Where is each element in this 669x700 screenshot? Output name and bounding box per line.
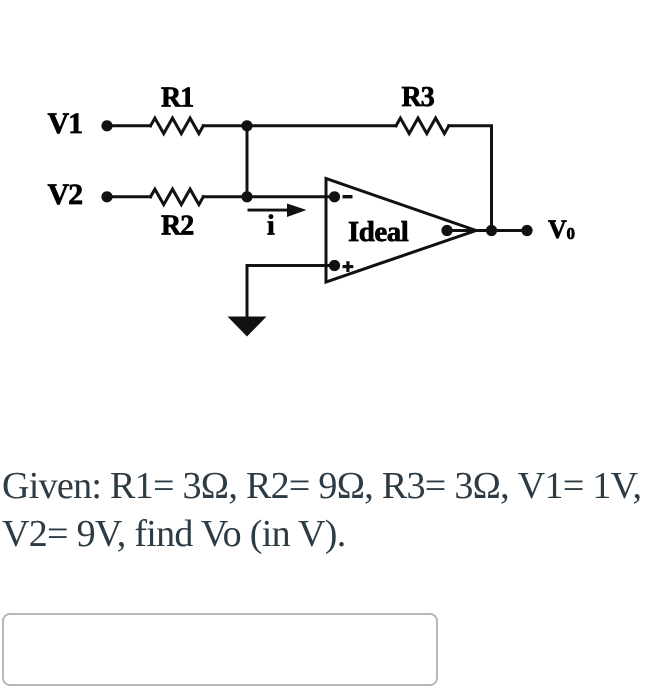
resistor R3 [396,118,449,134]
non-inverting input pin dot [329,260,340,271]
wire non-inverting input to ground [247,266,335,318]
ground [228,317,267,337]
wire V2 to R2 [107,195,151,198]
answer input box [2,613,438,686]
minus sign [343,195,353,198]
resistor R1 [151,118,204,134]
wire V1 to R1 [107,124,151,127]
label R1 [161,83,193,114]
output node junction dot [486,225,497,236]
wire R2 to inverting input [203,195,334,198]
label Ideal [348,216,409,248]
output pin dot [441,225,452,236]
node V1 terminal [101,120,112,131]
wire R3 to output node (feedback) [449,126,492,231]
label R3 [402,82,435,113]
inverting input pin dot [329,191,340,202]
current arrow i [248,204,307,218]
plus sign [343,261,354,272]
wire op-amp output to V0 [447,229,527,232]
label V1 [48,107,83,140]
resistor R2 [151,189,204,205]
svg-text:0: 0 [567,224,576,243]
label R2 [161,211,193,242]
svg-text:V: V [548,215,567,244]
wire vertical node A [246,126,249,197]
op-amp U1 [326,179,476,283]
svg-text:R1: R1 [161,83,193,114]
label i [267,211,275,242]
node V2 terminal [101,191,112,202]
node A junction lower [241,191,252,202]
question text [2,462,641,558]
svg-text:Ideal: Ideal [348,216,409,248]
node A junction upper [241,120,252,131]
svg-text:V2: V2 [48,178,83,211]
label V2 [48,178,83,211]
wire R1 to node A [203,124,396,127]
svg-text:V1: V1 [48,107,83,140]
svg-text:i: i [267,211,275,242]
node V0 terminal dot [521,225,532,236]
svg-text:R2: R2 [161,211,193,242]
svg-text:R3: R3 [402,82,435,113]
label V0 [548,215,575,244]
